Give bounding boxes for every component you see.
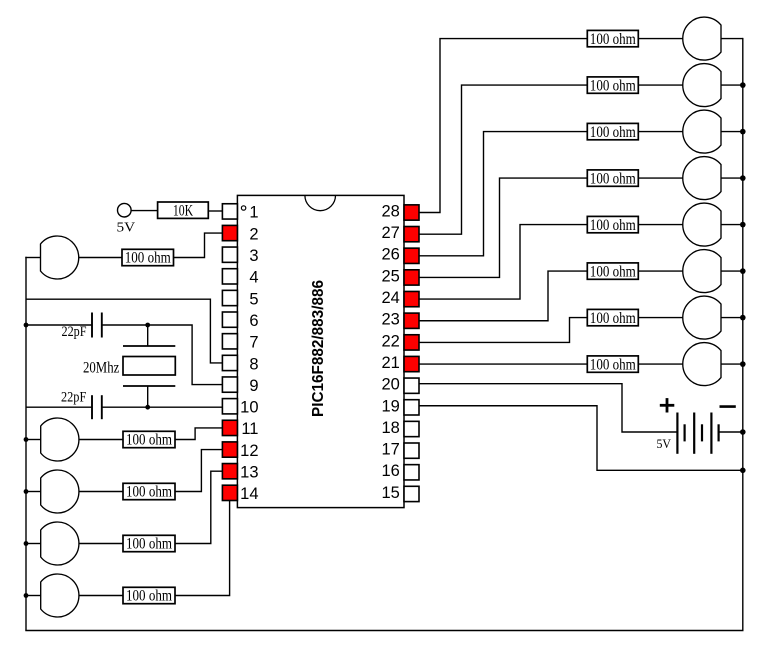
pin 13 number: [240, 464, 258, 482]
wire D8 to right bus: [721, 363, 743, 365]
pin 16 box: [404, 465, 419, 480]
svg-text:20Mhz: 20Mhz: [83, 359, 119, 376]
svg-text:6: 6: [249, 312, 258, 330]
svg-text:21: 21: [381, 354, 399, 372]
LED D1: [683, 17, 721, 60]
C1 label 22pF: [62, 324, 87, 340]
pin 23 number: [381, 311, 399, 329]
svg-text:8: 8: [249, 355, 258, 373]
pin 17 box: [404, 443, 419, 458]
wire bottom: [25, 630, 743, 632]
node bus junction dot D12: [24, 541, 29, 546]
IC U1 PIC16F882/883/886 microcontroller DIP-28 body: [237, 195, 404, 507]
wire D12 to R13: [79, 543, 123, 545]
LED D8: [683, 343, 721, 386]
5V terminal: [118, 203, 132, 217]
wire R14 to pin 14: [175, 501, 230, 596]
svg-text:12: 12: [240, 442, 258, 460]
capacitor C1 22pF: [26, 313, 148, 338]
wire pin 19 to right bus: [419, 406, 743, 471]
svg-text:23: 23: [381, 311, 399, 329]
wire bus to D10: [26, 439, 41, 441]
wire R5 to D5: [638, 224, 683, 226]
svg-text:13: 13: [240, 464, 258, 482]
pin 16 number: [381, 462, 399, 480]
svg-text:2: 2: [249, 225, 258, 243]
pin 21 number: [381, 354, 399, 372]
svg-text:100 ohm: 100 ohm: [126, 588, 172, 605]
wire pin 27 to R2: [419, 85, 587, 234]
resistor R14 100 ohm: [123, 587, 175, 604]
resistor R1 100 ohm: [587, 30, 638, 47]
pin 19 box: [404, 400, 419, 415]
LED D11: [41, 470, 79, 513]
LED D3: [683, 110, 721, 153]
svg-text:17: 17: [381, 441, 399, 459]
pin 10 box: [222, 399, 237, 414]
pin 11 box: [222, 420, 237, 435]
svg-text:100 ohm: 100 ohm: [590, 356, 636, 373]
wire pin 25 to R4: [419, 178, 587, 277]
LED D13: [41, 574, 79, 617]
wire pin 21 to R8: [419, 363, 587, 365]
pin 6 number: [249, 312, 258, 330]
svg-text:27: 27: [381, 224, 399, 242]
svg-text:24: 24: [381, 289, 399, 307]
resistor R7 100 ohm: [587, 309, 638, 326]
svg-text:100 ohm: 100 ohm: [590, 31, 636, 48]
wire bus to pin 8: [26, 299, 222, 363]
wire R1 to D1: [638, 38, 683, 40]
resistor R8 100 ohm: [587, 356, 638, 373]
node pin19 bus dot: [740, 468, 746, 474]
LED D2: [683, 64, 721, 107]
resistor R3 100 ohm: [587, 123, 638, 140]
5V label: [117, 221, 136, 236]
pin 20 number: [381, 376, 399, 394]
wire R13 to pin 13: [175, 471, 222, 543]
wire bus to D13: [26, 595, 41, 597]
svg-text:100 ohm: 100 ohm: [590, 124, 636, 141]
resistor R5 100 ohm: [587, 216, 638, 233]
capacitor C2 22pF: [26, 395, 222, 419]
wire left bus: [25, 257, 27, 631]
svg-text:15: 15: [381, 484, 399, 502]
wire D9 to R10: [79, 257, 122, 259]
LED D6: [683, 250, 721, 293]
pin 19 number: [381, 397, 399, 415]
wire R12 to pin 12: [175, 450, 222, 492]
pin 8 box: [222, 355, 237, 370]
pin 18 number: [381, 419, 399, 437]
pin 12 number: [240, 442, 258, 460]
pin 15 number: [381, 484, 399, 502]
pin 14 number: [240, 485, 258, 503]
pin 1 number: [249, 204, 258, 222]
svg-text:100 ohm: 100 ohm: [126, 432, 172, 449]
pin 9 number: [249, 377, 258, 395]
svg-text:5V: 5V: [117, 221, 136, 236]
wire D11 to R12: [79, 491, 123, 493]
LED D10: [41, 418, 79, 461]
svg-text:100 ohm: 100 ohm: [590, 170, 636, 187]
pin 17 number: [381, 441, 399, 459]
svg-text:PIC16F882/883/886: PIC16F882/883/886: [310, 280, 327, 417]
pin 25 number: [381, 267, 399, 285]
pin 5 box: [222, 290, 237, 305]
wire pin 22 to R7: [419, 318, 587, 343]
node bus junction dot D11: [24, 489, 29, 494]
svg-text:11: 11: [241, 420, 258, 438]
pin 20 box: [404, 378, 419, 393]
LED D7: [683, 296, 721, 339]
C2 label 22pF: [61, 390, 86, 406]
battery minus sign: [720, 405, 736, 408]
svg-text:18: 18: [381, 419, 399, 437]
pin 10 number: [240, 399, 258, 417]
pin 4 number: [249, 269, 258, 287]
pin 22 box: [404, 335, 419, 350]
resistor R9 10K: [158, 202, 209, 220]
svg-text:28: 28: [381, 202, 399, 220]
wire R8 to D8: [638, 363, 683, 365]
wire R3 to D3: [638, 131, 683, 133]
crystal X1 20Mhz: [123, 325, 175, 407]
svg-text:100 ohm: 100 ohm: [590, 263, 636, 280]
pin 1 box: [222, 204, 237, 219]
node OSC2 dot: [145, 405, 150, 410]
battery BT1 5V: [677, 413, 718, 454]
resistor R12 100 ohm: [123, 483, 175, 500]
svg-text:7: 7: [249, 334, 258, 352]
pin 4 box: [222, 269, 237, 284]
pin 9 box: [222, 377, 237, 392]
wire R6 to D6: [638, 270, 683, 272]
pin 15 box: [404, 486, 419, 501]
node right bus dot D8: [740, 361, 746, 367]
wire right bus: [742, 38, 744, 631]
pin 28 box: [404, 205, 419, 220]
wire pin 23 to R6: [419, 271, 587, 321]
wire R11 to pin 11: [175, 428, 222, 440]
svg-text:26: 26: [381, 246, 399, 264]
wire bus to D12: [26, 543, 41, 545]
node bus junction dot D13: [24, 593, 29, 598]
pin 3 box: [222, 247, 237, 262]
node right bus dot D4: [740, 175, 746, 181]
wire pin 26 to R3: [419, 132, 587, 256]
pin 22 number: [381, 332, 399, 350]
resistor R13 100 ohm: [123, 535, 175, 552]
svg-text:5: 5: [249, 290, 258, 308]
pin 24 box: [404, 291, 419, 306]
resistor R6 100 ohm: [587, 263, 638, 280]
pin 7 number: [249, 334, 258, 352]
node OSC1 dot: [24, 323, 151, 328]
svg-text:1: 1: [249, 204, 258, 222]
pin 6 box: [222, 312, 237, 327]
svg-text:20: 20: [381, 376, 399, 394]
wire R4 to D4: [638, 177, 683, 179]
wire C1 to pin 9: [148, 325, 223, 385]
pin 26 number: [381, 246, 399, 264]
wire D10 to R11: [79, 439, 123, 441]
svg-text:100 ohm: 100 ohm: [126, 536, 172, 553]
pin 3 number: [249, 247, 258, 265]
resistor R11 100 ohm: [123, 431, 175, 448]
pin 18 box: [404, 421, 419, 436]
wire pin 20 to battery: [419, 384, 677, 432]
svg-text:19: 19: [381, 397, 399, 415]
resistor R2 100 ohm: [587, 77, 638, 94]
svg-text:22pF: 22pF: [61, 390, 86, 406]
svg-text:100 ohm: 100 ohm: [590, 310, 636, 327]
pin 12 box: [222, 442, 237, 457]
svg-text:22: 22: [381, 332, 399, 350]
pin 2 number: [249, 225, 258, 243]
pin 28 number: [381, 202, 399, 220]
svg-text:9: 9: [249, 377, 258, 395]
LED D4: [683, 157, 721, 200]
wire D2 to right bus: [721, 84, 743, 86]
wire R9 to pin 1: [208, 210, 222, 212]
node right bus dot D3: [740, 129, 746, 135]
node right bus dot D2: [740, 82, 746, 88]
pin 7 box: [222, 334, 237, 349]
pin 23 box: [404, 313, 419, 328]
wire D1 to right bus: [721, 38, 743, 40]
wire D4 to right bus: [721, 177, 743, 179]
node battery bus dot: [740, 429, 746, 435]
pin 27 box: [404, 227, 419, 242]
svg-text:100 ohm: 100 ohm: [126, 484, 172, 501]
pin 5 number: [249, 290, 258, 308]
wire D7 to right bus: [721, 317, 743, 319]
svg-text:14: 14: [240, 485, 258, 503]
wire R2 to D2: [638, 84, 683, 86]
svg-text:22pF: 22pF: [62, 324, 87, 340]
wire R10 to pin 2: [174, 233, 223, 257]
wire battery to right bus: [719, 431, 743, 433]
svg-text:100 ohm: 100 ohm: [590, 217, 636, 234]
LED D9: [41, 236, 79, 279]
node right bus dot D7: [740, 315, 746, 321]
node bus junction dot D10: [24, 437, 29, 442]
wire bus to D11: [26, 491, 41, 493]
battery plus sign: [660, 398, 675, 412]
wire R7 to D7: [638, 317, 683, 319]
wire pin 28 to R1: [419, 39, 587, 213]
pin 25 box: [404, 270, 419, 285]
svg-text:25: 25: [381, 267, 399, 285]
X1 label 20Mhz: [83, 359, 119, 376]
svg-text:4: 4: [249, 269, 258, 287]
pin 13 box: [222, 464, 237, 479]
battery label 5V: [657, 437, 672, 451]
pin 21 box: [404, 356, 419, 371]
wire bus to D9: [25, 257, 40, 259]
svg-text:10: 10: [240, 399, 258, 417]
wire D6 to right bus: [721, 270, 743, 272]
svg-text:5V: 5V: [657, 437, 672, 451]
wire D3 to right bus: [721, 131, 743, 133]
node right bus dot D5: [740, 222, 746, 228]
svg-text:3: 3: [249, 247, 258, 265]
pin 24 number: [381, 289, 399, 307]
wire D13 to R14: [79, 595, 123, 597]
pin 14 box: [222, 485, 237, 500]
svg-text:100 ohm: 100 ohm: [125, 250, 171, 267]
wire pin 24 to R5: [419, 225, 587, 300]
svg-text:100 ohm: 100 ohm: [590, 77, 636, 94]
pin 26 box: [404, 248, 419, 263]
resistor R10 100 ohm: [122, 249, 174, 266]
pin 2 box: [222, 225, 237, 240]
wire D5 to right bus: [721, 224, 743, 226]
LED D5: [683, 203, 721, 246]
LED D12: [41, 522, 79, 565]
svg-text:10K: 10K: [173, 203, 194, 220]
wire 5V to R9: [131, 210, 158, 212]
pin 11 number: [241, 420, 258, 438]
pin 27 number: [381, 224, 399, 242]
pin 8 number: [249, 355, 258, 373]
node right bus dot D6: [740, 268, 746, 274]
resistor R4 100 ohm: [587, 170, 638, 187]
svg-text:16: 16: [381, 462, 399, 480]
